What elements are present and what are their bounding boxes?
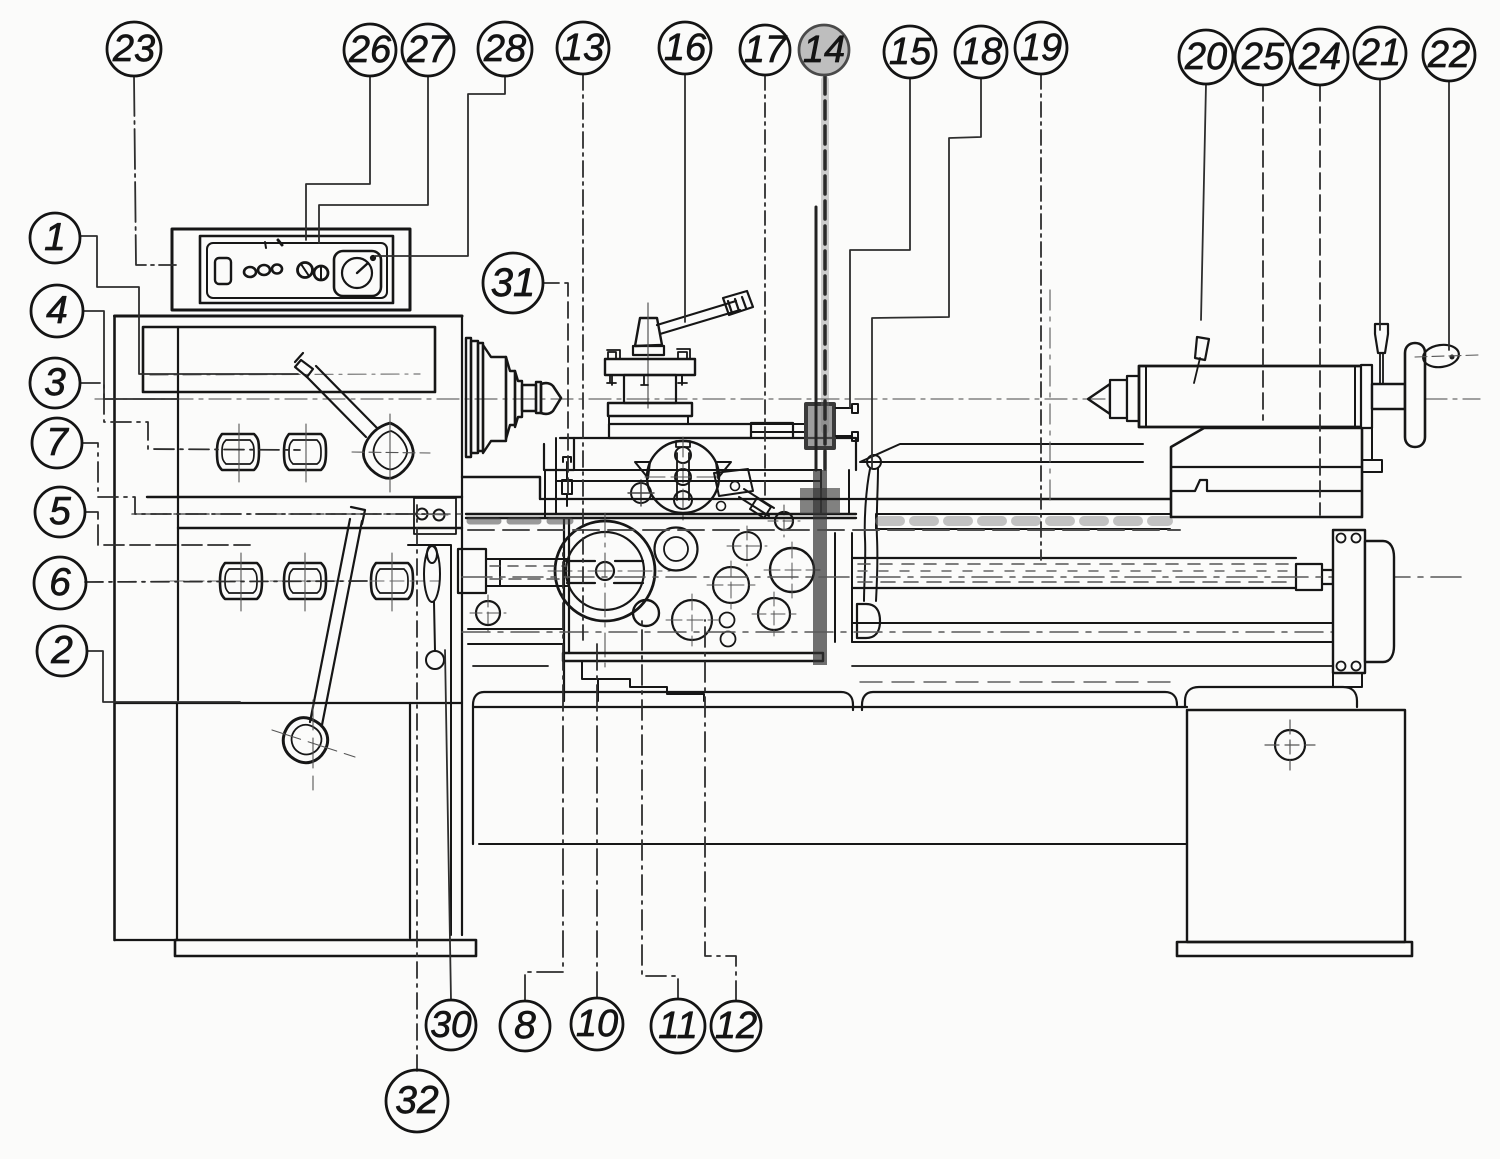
panel tick marks (265, 242, 266, 248)
swivel bolt left (631, 483, 651, 503)
chip pan top (473, 692, 853, 844)
control panel inner box (200, 236, 393, 303)
plate bolt right (677, 349, 690, 383)
knob row1 b cross (305, 424, 307, 482)
riser block (624, 375, 676, 403)
balloon 15 (884, 26, 936, 78)
long dash bed line (468, 529, 1180, 531)
svg-text:30: 30 (430, 1004, 472, 1045)
leader 8 (525, 545, 563, 1001)
svg-text:16: 16 (664, 27, 707, 69)
svg-text:21: 21 (1358, 32, 1401, 74)
compound slide top (608, 403, 692, 416)
balloon 8 (500, 1001, 550, 1051)
leader 16 (684, 74, 686, 322)
feed rod (468, 623, 1333, 644)
panel switch (215, 258, 231, 284)
QC plate (714, 469, 753, 496)
apron body sides (564, 519, 569, 701)
panel knob 27 (314, 266, 328, 280)
tailstock dead centre (1088, 384, 1110, 414)
svg-text:4: 4 (46, 289, 68, 332)
rack strip (876, 514, 1170, 529)
svg-text:19: 19 (1020, 27, 1062, 69)
bolt stems below (612, 375, 682, 385)
balloon 5 (35, 487, 85, 537)
gearbox joint smear (470, 518, 570, 525)
bed way cover (860, 444, 1143, 462)
friction lever pivot squircle (363, 423, 413, 478)
handwheel cross (548, 513, 670, 668)
svg-text:13: 13 (562, 27, 604, 69)
headstock mid lines (147, 496, 462, 498)
leader 20 (1201, 84, 1206, 320)
headstock inner vertical (177, 327, 179, 700)
tailstock crank ellipse (1422, 343, 1461, 370)
balloon 27 (402, 24, 454, 76)
panel pilot lamp 1 (244, 267, 256, 277)
svg-text:5: 5 (49, 490, 71, 533)
balloon 1 (30, 213, 80, 263)
balloon 23 (107, 22, 161, 76)
knob row2 b (284, 563, 326, 599)
saddle bands (556, 470, 821, 481)
balloon 6 (34, 557, 86, 609)
leader 21 (1379, 79, 1381, 330)
leader 22 (1448, 81, 1450, 350)
friction lever handle (295, 353, 377, 437)
balloon 16 (659, 22, 711, 74)
headstock top edge (115, 315, 463, 318)
switch rod (473, 665, 1340, 667)
knob row1 b (284, 434, 326, 470)
dead centre cone (541, 383, 561, 414)
swivel chain links (675, 447, 691, 463)
svg-text:14: 14 (803, 29, 845, 71)
tailstock barrel (1139, 366, 1362, 427)
balloon 18 (955, 26, 1007, 78)
leader 30 (445, 650, 451, 1000)
apron circle a (733, 532, 761, 560)
svg-text:22: 22 (1427, 34, 1470, 76)
MACHINE (95, 229, 1480, 956)
svg-text:6: 6 (49, 561, 71, 604)
apron small f (720, 613, 735, 628)
panel knob 26 (298, 263, 313, 278)
lock lever 20 (1195, 337, 1209, 360)
apron ring gear (655, 528, 698, 571)
swivel centre cross (645, 437, 721, 520)
swivel wing right (716, 462, 731, 478)
leader 1 (80, 236, 298, 374)
QC lever (739, 489, 774, 518)
leader 5 (85, 512, 250, 545)
pivot cross lines (389, 414, 391, 492)
tailstock body block (1171, 428, 1362, 517)
svg-text:32: 32 (395, 1079, 439, 1122)
apron small g (721, 632, 736, 647)
apron circle d (758, 598, 790, 630)
apron support column (408, 545, 462, 935)
headstock recess panel (143, 327, 435, 392)
apron handwheel (555, 521, 655, 621)
balloon 30 (426, 1000, 476, 1050)
svg-text:10: 10 (576, 1003, 618, 1045)
leader 3 (80, 383, 300, 450)
headstock right edge (461, 316, 463, 935)
leader 18 (872, 78, 981, 468)
svg-text:1: 1 (44, 216, 66, 259)
tailstock base split line (1171, 466, 1362, 468)
main spindle axis centreline (95, 398, 1480, 400)
leadscrew (852, 558, 1333, 590)
crank centre dash (1415, 355, 1478, 357)
balloon 2 (37, 626, 87, 676)
leader 28 (375, 76, 505, 256)
cabinet inner vertical (176, 703, 178, 940)
tailstock spindle washers (1110, 380, 1127, 418)
swivel wing left (635, 462, 650, 478)
balloon 25 (1235, 29, 1291, 85)
bed circle left (476, 601, 500, 625)
balloon 22 (1423, 29, 1475, 81)
tool post lever (657, 291, 753, 334)
leader 23 (134, 76, 176, 265)
panel pilot lamp 3 (272, 265, 282, 274)
leader 32 (416, 505, 418, 1071)
reverse knob cross (312, 700, 314, 790)
leader 17 (764, 76, 766, 500)
svg-text:18: 18 (960, 31, 1002, 73)
balloon 4 (31, 285, 83, 337)
handwheel bar spokes (566, 561, 643, 583)
svg-text:23: 23 (112, 28, 155, 70)
tool post plate (605, 359, 695, 375)
saddle right ledge (751, 423, 856, 470)
cross feed crank (562, 457, 572, 506)
balloon 17 (740, 25, 790, 75)
svg-text:28: 28 (483, 28, 526, 70)
balloon 12 (711, 1001, 761, 1051)
chip pan bottom (479, 843, 1187, 845)
svg-text:20: 20 (1184, 36, 1227, 78)
knob row2 c (371, 563, 413, 599)
balloon 10 (571, 998, 623, 1050)
leader 24 (1319, 85, 1321, 515)
panel pilot lamp 2 (258, 265, 270, 275)
tailstock centreline verticals (1049, 290, 1051, 500)
svg-text:15: 15 (889, 31, 932, 73)
leader 31 (543, 283, 568, 500)
leader 25 (1262, 85, 1264, 420)
leader 13 (582, 74, 584, 640)
knob row2 c cross (391, 553, 393, 611)
swivel circle (647, 441, 719, 513)
leader 19 (1040, 74, 1042, 560)
pedestal circle (1275, 730, 1305, 760)
right pedestal rounded top (1185, 687, 1357, 707)
svg-text:17: 17 (744, 29, 788, 71)
balloon 24 (1292, 29, 1348, 85)
balloon 11 (651, 999, 705, 1053)
balloon 32 (386, 1070, 448, 1132)
balloon 3 (30, 358, 80, 408)
balloon 20 (1179, 30, 1233, 84)
balloon 14 (799, 25, 849, 75)
row2 centreline (170, 580, 440, 582)
leader 11 (642, 620, 678, 999)
apron bottom plate (563, 653, 823, 661)
balloon 21 (1354, 27, 1406, 79)
tailstock hub bar (1372, 384, 1405, 409)
cabinet bottom (115, 939, 178, 941)
leadscrew left part (458, 549, 486, 593)
leadscrew bracket on apron (835, 533, 852, 642)
spindle cone pulley (466, 338, 541, 457)
balloon 7 (32, 418, 82, 468)
balloon 19 (1015, 22, 1067, 74)
control panel inner rounded frame (207, 243, 387, 298)
balloon 26 (344, 24, 396, 76)
knob row2 b cross (304, 553, 306, 611)
knob row2 a (220, 563, 262, 599)
scan smudges (806, 404, 834, 448)
balloon 13 (557, 22, 609, 74)
headstock left edge (113, 316, 116, 940)
bed lines top (876, 498, 1171, 500)
plinth (175, 940, 476, 956)
svg-text:8: 8 (514, 1004, 536, 1047)
svg-text:31: 31 (491, 261, 536, 305)
clamp bolts right (836, 404, 858, 441)
svg-text:26: 26 (348, 29, 392, 71)
panel dial frame (334, 251, 381, 296)
feed rod centreline (462, 631, 1340, 633)
leadscrew thread dashes (858, 563, 1290, 565)
tool post centre line (647, 303, 649, 408)
svg-text:3: 3 (44, 361, 66, 404)
leader 12 (705, 620, 736, 1001)
leader 7 (82, 443, 428, 514)
leadscrew end bracket (1333, 530, 1365, 673)
panel dial (342, 258, 372, 288)
cabinet top edge (115, 702, 463, 704)
svg-text:11: 11 (658, 1005, 697, 1047)
tailstock right ledge (1362, 460, 1382, 472)
leadscrew centreline (462, 576, 1462, 578)
tailstock base notch line (1171, 480, 1362, 491)
leader 2 (87, 651, 240, 702)
knob row1 a (217, 434, 259, 470)
svg-text:27: 27 (406, 29, 451, 71)
recess centreline (150, 374, 420, 375)
knob row2 a cross (240, 553, 242, 611)
svg-text:12: 12 (715, 1005, 757, 1047)
reverse lever rod (310, 507, 365, 725)
plate bolt left (607, 350, 620, 383)
handwheel crank knob (633, 600, 659, 626)
cabinet right vertical (409, 703, 411, 938)
leader 14 (821, 80, 829, 430)
knob row1 a cross (238, 424, 240, 482)
leader 26 (306, 76, 370, 240)
svg-text:7: 7 (46, 421, 69, 464)
apron stairs (582, 661, 704, 701)
balloon 31 (483, 253, 543, 313)
svg-text:2: 2 (50, 629, 73, 672)
reverse lever knob (283, 718, 327, 763)
right plinth (1177, 942, 1412, 956)
carriage: tool post cone (635, 318, 662, 346)
LEADERS (80, 74, 1449, 1071)
leader 15 (850, 78, 910, 408)
apron circle e (672, 600, 712, 640)
apron circle c (713, 567, 749, 603)
tailstock end column (1361, 365, 1372, 428)
compound slide mid (609, 416, 688, 424)
leader 6 (85, 581, 370, 582)
saddle left wing (544, 438, 574, 470)
pushrod 32 target (424, 545, 444, 669)
C bracket (857, 604, 880, 638)
svg-text:24: 24 (1298, 36, 1341, 78)
grip handle 21 (1375, 324, 1388, 353)
svg-text:25: 25 (1241, 36, 1285, 78)
barrel inner verticals (1146, 366, 1355, 427)
apron circle b (770, 548, 814, 592)
cross slide surface line (560, 437, 793, 439)
control panel outer box (172, 229, 410, 310)
plate with screws (414, 498, 456, 534)
tailstock handwheel rim (1405, 343, 1425, 447)
leader 4 (83, 311, 178, 399)
carriage lever 18 (867, 455, 881, 469)
QC lever knob (775, 512, 793, 530)
leader 27 (319, 76, 428, 243)
cross slide block (609, 424, 751, 438)
leader 10 (596, 640, 598, 998)
right pedestal (1187, 710, 1405, 942)
balloon 28 (478, 22, 532, 76)
